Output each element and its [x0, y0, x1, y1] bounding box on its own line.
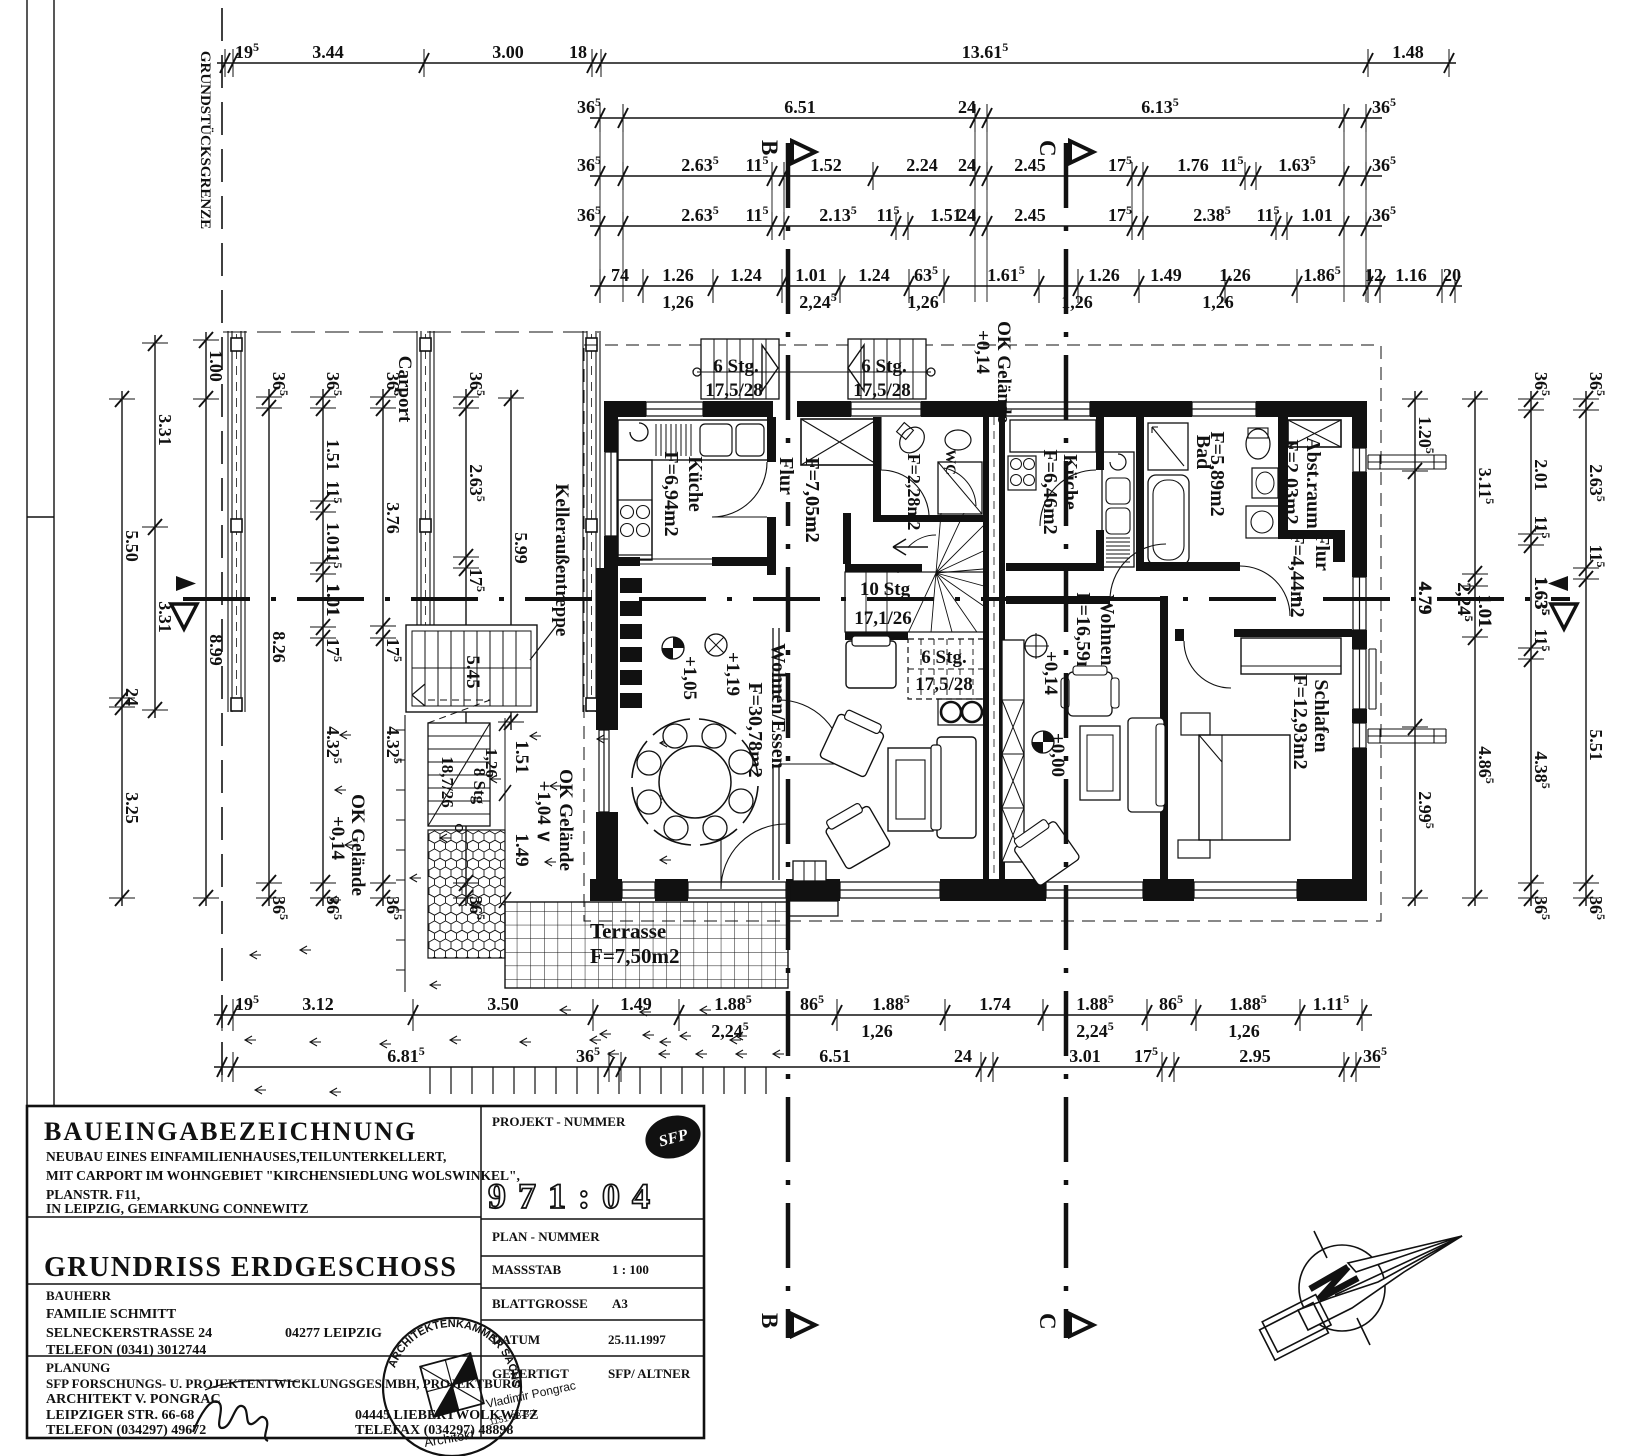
- signature: [193, 1401, 268, 1441]
- svg-text:GRUNDRISS ERDGESCHOSS: GRUNDRISS ERDGESCHOSS: [44, 1252, 458, 1283]
- svg-text:TELEFON (034297) 49672: TELEFON (034297) 49672: [46, 1423, 206, 1438]
- svg-text:Flur: Flur: [1311, 533, 1333, 571]
- entry stair 6 Stg: [701, 339, 779, 399]
- svg-text:+0,14: +0,14: [1040, 651, 1061, 696]
- title block frame: [27, 1106, 704, 1438]
- Wohnen/Schlafen wall: [1160, 596, 1168, 879]
- svg-text:PLANUNG: PLANUNG: [46, 1360, 110, 1375]
- window: [840, 882, 940, 898]
- svg-text:ARCHITEKT V. PONGRAC: ARCHITEKT V. PONGRAC: [46, 1392, 221, 1407]
- wall kitchen/hall left unit: [767, 417, 776, 462]
- door arc kitchen left: [712, 462, 767, 517]
- svg-text:+0,00: +0,00: [1047, 733, 1068, 777]
- window: [1353, 577, 1366, 630]
- window: [622, 882, 655, 898]
- right chain 2.63/5.51: [1585, 391, 1587, 906]
- needle lower body: [1298, 1236, 1462, 1330]
- Flur label left unit (over section B): [776, 452, 798, 502]
- svg-text:+0,14: +0,14: [327, 816, 348, 861]
- window: [1353, 723, 1366, 748]
- svg-text:24: 24: [958, 97, 976, 117]
- witness guide lines top block: [600, 104, 1366, 302]
- svg-text:1.48: 1.48: [1392, 42, 1424, 62]
- svg-text:NEUBAU EINES EINFAMILIENHAUSES: NEUBAU EINES EINFAMILIENHAUSES,TEILUNTER…: [46, 1149, 446, 1164]
- right unit kitchen wall: [1096, 417, 1104, 470]
- svg-text:MASSSTAB: MASSSTAB: [492, 1262, 561, 1277]
- carport wall: [417, 331, 434, 712]
- svg-text:+0,14: +0,14: [972, 330, 993, 375]
- top dimension row 1: [217, 62, 1456, 64]
- svg-text:13.615: 13.615: [962, 40, 1009, 62]
- svg-text:1.01: 1.01: [322, 583, 343, 616]
- window: [688, 882, 786, 898]
- wall below stair: [845, 632, 908, 640]
- level symbols living: [662, 637, 684, 659]
- svg-text:5.51: 5.51: [1586, 729, 1606, 761]
- svg-text:GRUNDSTÜCKSGRENZE: GRUNDSTÜCKSGRENZE: [197, 51, 214, 229]
- svg-text:6.51: 6.51: [819, 1046, 851, 1066]
- needle upper sliver: [1348, 1236, 1462, 1272]
- party wall: [983, 417, 989, 879]
- svg-text:5.50: 5.50: [122, 530, 142, 562]
- svg-text:6 Stg.: 6 Stg.: [921, 647, 966, 668]
- Abstellraum wall: [1278, 417, 1288, 539]
- svg-text:+1,05: +1,05: [679, 656, 700, 700]
- svg-text:2.45: 2.45: [1014, 205, 1046, 225]
- sitting group left unit: [846, 641, 896, 688]
- dining table round: [659, 746, 731, 818]
- svg-text:Kelleraußentreppe: Kelleraußentreppe: [551, 484, 572, 637]
- svg-text:3.25: 3.25: [122, 792, 142, 824]
- svg-text:1.01: 1.01: [1474, 594, 1495, 627]
- svg-text:24: 24: [122, 688, 142, 706]
- svg-text:Küche: Küche: [684, 456, 706, 512]
- svg-text:5.45: 5.45: [462, 655, 483, 688]
- svg-text:8.99: 8.99: [206, 634, 226, 666]
- section flag C top: [1070, 141, 1093, 163]
- svg-text:C: C: [1035, 140, 1060, 157]
- svg-text:PROJEKT - NUMMER: PROJEKT - NUMMER: [492, 1114, 626, 1129]
- svg-text:Flur: Flur: [775, 457, 797, 495]
- svg-text:1.76: 1.76: [1177, 155, 1209, 175]
- svg-text:F=7,50m2: F=7,50m2: [590, 944, 680, 968]
- kitchen counter top left unit: [618, 420, 768, 460]
- eaves dashed outline: [584, 345, 1381, 921]
- svg-text:2.45: 2.45: [1014, 155, 1046, 175]
- svg-text:3.01: 3.01: [1069, 1046, 1101, 1066]
- X box entry: [801, 419, 878, 465]
- top dimension row 2: [590, 117, 1382, 119]
- window: [599, 730, 609, 812]
- terrace grid hatch: [505, 902, 788, 988]
- svg-text:1,26: 1,26: [1228, 1021, 1260, 1041]
- left chain 5.99: [510, 390, 512, 730]
- left chain 3.31/3.31: [154, 335, 156, 718]
- svg-text:F=4,44m2: F=4,44m2: [1286, 532, 1308, 617]
- svg-text:GEFERTIGT: GEFERTIGT: [492, 1366, 569, 1381]
- kitchen counter left column: [618, 460, 652, 560]
- svg-text:Carport: Carport: [394, 356, 415, 423]
- retaining wall with ticks: [396, 715, 405, 992]
- svg-text:18,7/26: 18,7/26: [438, 756, 457, 807]
- svg-text:1.01: 1.01: [795, 265, 827, 285]
- door arc terrace: [721, 824, 786, 889]
- svg-text:Schlafen: Schlafen: [1310, 679, 1332, 752]
- sheet border lines left: [27, 0, 54, 1106]
- Abstellraum X box: [1288, 420, 1341, 447]
- svg-text:10 Stg: 10 Stg: [860, 579, 911, 600]
- svg-text:F=7,05m2: F=7,05m2: [801, 457, 823, 542]
- svg-text:6 Stg.: 6 Stg.: [713, 356, 758, 377]
- window: [1046, 882, 1143, 898]
- svg-text:3.00: 3.00: [492, 42, 524, 62]
- svg-text:1,26: 1,26: [482, 748, 501, 778]
- section marker A right: [1548, 576, 1568, 591]
- wall kitchen bottom right: [1006, 563, 1104, 571]
- exterior wall top: [604, 401, 646, 417]
- window: [1006, 402, 1090, 416]
- stove 4 burners: [618, 500, 652, 555]
- tail block: [1257, 1295, 1334, 1361]
- window: [851, 402, 921, 416]
- svg-text:12: 12: [1365, 265, 1383, 285]
- svg-text:24: 24: [958, 155, 976, 175]
- svg-text:17,5/28: 17,5/28: [853, 380, 911, 401]
- svg-text:1.52: 1.52: [810, 155, 842, 175]
- svg-text:24: 24: [954, 1046, 972, 1066]
- svg-text:B: B: [757, 140, 782, 155]
- carport wall: [583, 331, 600, 712]
- carport wall: [228, 331, 245, 712]
- svg-text:6.51: 6.51: [784, 97, 816, 117]
- svg-text:PLANSTR. F11,: PLANSTR. F11,: [46, 1187, 140, 1202]
- section line B vertical: [786, 143, 791, 1338]
- svg-text:2.24: 2.24: [906, 155, 938, 175]
- door arc hall->living: [779, 700, 843, 764]
- svg-text:Wohnen/Essen: Wohnen/Essen: [767, 643, 789, 769]
- svg-text:1.49: 1.49: [511, 833, 532, 866]
- svg-text:3.76: 3.76: [383, 502, 403, 534]
- svg-text:Terrasse: Terrasse: [590, 919, 666, 943]
- exterior wall right: [1352, 401, 1367, 448]
- small dim chain 1.51/1.49: [504, 718, 506, 905]
- svg-text:TELEFON (0341) 3012744: TELEFON (0341) 3012744: [46, 1343, 206, 1358]
- svg-text:BLATTGROSSE: BLATTGROSSE: [492, 1296, 588, 1311]
- svg-text:LEIPZIGER STR. 66-68: LEIPZIGER STR. 66-68: [46, 1408, 194, 1423]
- wall hall/living left unit: [773, 628, 779, 880]
- svg-text:B: B: [757, 1313, 782, 1328]
- svg-text:3.44: 3.44: [312, 42, 344, 62]
- svg-text:1.24: 1.24: [858, 265, 890, 285]
- svg-text:4.79: 4.79: [1414, 581, 1435, 614]
- svg-text:3.31: 3.31: [155, 414, 175, 446]
- stair direction arrow: [893, 539, 928, 555]
- svg-text:5.99: 5.99: [511, 532, 531, 564]
- bottom dimension row 1: [214, 1014, 1372, 1016]
- svg-text:Küche: Küche: [1059, 454, 1081, 510]
- entry stair 6 Stg: [848, 339, 926, 399]
- svg-text:2.95: 2.95: [1239, 1046, 1271, 1066]
- svg-text:F=2,03m2: F=2,03m2: [1280, 439, 1302, 524]
- bed: [1199, 735, 1290, 840]
- left chain with 1.51/1.01: [322, 389, 324, 906]
- window: [1353, 649, 1366, 709]
- window: [1353, 448, 1366, 472]
- left chain 5.50/24/3.25: [121, 391, 123, 906]
- bottom dimension row 2: [214, 1066, 1380, 1068]
- property boundary dashed line vertical (Grundstuecksgrenze): [221, 8, 223, 1088]
- svg-text:1.24: 1.24: [730, 265, 762, 285]
- right chain 2.01/1.63/4.38: [1530, 391, 1532, 906]
- left chain 36/8.26/36: [268, 389, 270, 906]
- svg-text:+1,04 ∨: +1,04 ∨: [533, 781, 554, 844]
- small table bottom: [793, 861, 826, 881]
- two burners near party wall: [938, 699, 984, 725]
- right unit level symbols: [1025, 635, 1047, 657]
- svg-text:1,26: 1,26: [662, 292, 694, 312]
- svg-text:SFP/ ALTNER: SFP/ ALTNER: [608, 1366, 691, 1381]
- window: [1192, 402, 1256, 416]
- exterior wall left: [604, 401, 618, 452]
- svg-text:1.51: 1.51: [323, 439, 343, 471]
- window: [605, 452, 617, 536]
- svg-text:971:04: 971:04: [488, 1176, 662, 1216]
- Bad walls: [1136, 417, 1144, 571]
- svg-text:20: 20: [1443, 265, 1461, 285]
- sitting group right unit: [1068, 672, 1112, 716]
- svg-text:1 : 100: 1 : 100: [612, 1262, 649, 1277]
- nightstands: [1181, 713, 1210, 735]
- arrow in stair: [412, 684, 425, 706]
- svg-text:1.51: 1.51: [511, 740, 532, 773]
- svg-text:IN LEIPZIG, GEMARKUNG CONNEWIT: IN LEIPZIG, GEMARKUNG CONNEWITZ: [46, 1201, 309, 1216]
- window: [646, 402, 703, 416]
- svg-text:A3: A3: [612, 1296, 628, 1311]
- wall kitchen bottom left unit: [604, 557, 640, 566]
- svg-text:+1,19: +1,19: [722, 652, 743, 696]
- right unit hall wall / Wohnen top: [1006, 596, 1110, 604]
- svg-text:SELNECKERSTRASSE 24: SELNECKERSTRASSE 24: [46, 1326, 212, 1341]
- svg-text:1.26: 1.26: [1219, 265, 1251, 285]
- section flag B bottom: [792, 1314, 815, 1336]
- svg-text:OK Gelände: OK Gelände: [555, 769, 576, 871]
- architect stamp: [383, 1318, 521, 1456]
- svg-text:1.00: 1.00: [206, 350, 226, 382]
- svg-text:24: 24: [958, 205, 976, 225]
- svg-text:F=2,28m2: F=2,28m2: [904, 454, 924, 531]
- top dimension row 4: [590, 225, 1382, 227]
- top dimension row 5: [590, 285, 1462, 287]
- WC walls: [873, 417, 881, 522]
- window sill symbols right: [1368, 455, 1446, 469]
- shelves black left living: [620, 578, 642, 593]
- svg-text:F=5,89m2: F=5,89m2: [1206, 431, 1228, 516]
- svg-text:F=6,46m2: F=6,46m2: [1039, 449, 1061, 534]
- fence tick marks below bottom line: [430, 1067, 766, 1094]
- svg-text:MIT CARPORT IM WOHNGEBIET "KIR: MIT CARPORT IM WOHNGEBIET "KIRCHENSIEDLU…: [46, 1168, 520, 1183]
- exterior wall bottom: [590, 879, 622, 901]
- svg-text:2.01: 2.01: [1531, 459, 1551, 491]
- svg-text:BAUHERR: BAUHERR: [46, 1288, 112, 1303]
- svg-text:04277 LEIPZIG: 04277 LEIPZIG: [285, 1326, 382, 1341]
- north arrow: [1257, 1231, 1462, 1360]
- left chain 3.76: [382, 389, 384, 906]
- svg-text:Wohnen: Wohnen: [1096, 594, 1118, 665]
- right chain 1.20/4.79/2.99: [1414, 391, 1416, 906]
- left chain 1.00/8.99: [205, 332, 207, 906]
- svg-text:C: C: [1035, 1313, 1060, 1330]
- svg-text:1.26: 1.26: [662, 265, 694, 285]
- top dimension row 3: [590, 175, 1382, 177]
- svg-text:18: 18: [569, 42, 587, 62]
- N letter (appears Z-like): [1310, 1267, 1358, 1299]
- svg-text:17,1/26: 17,1/26: [854, 608, 912, 629]
- section line C vertical: [1064, 143, 1069, 1338]
- svg-text:74: 74: [611, 265, 629, 285]
- section line A horizontal: [183, 597, 1570, 601]
- chevron marks: [245, 731, 784, 1096]
- right chain 3.11/1.01/4.86: [1474, 391, 1476, 906]
- door arc WC: [881, 417, 929, 515]
- svg-text:1,26: 1,26: [907, 292, 939, 312]
- svg-text:1.74: 1.74: [979, 994, 1011, 1014]
- SFP logo: [641, 1109, 706, 1164]
- svg-text:1.26: 1.26: [1088, 265, 1120, 285]
- svg-text:F=12,93m2: F=12,93m2: [1289, 674, 1311, 769]
- svg-text:17,5/28: 17,5/28: [705, 380, 763, 401]
- left chain 2.63: [465, 389, 467, 906]
- section flag B top: [792, 141, 815, 163]
- entry step below wall: [788, 901, 838, 916]
- hall/stair wall: [845, 564, 922, 572]
- hexagon paving area: [428, 830, 505, 958]
- svg-text:6 Stg.: 6 Stg.: [861, 356, 906, 377]
- svg-text:25.11.1997: 25.11.1997: [608, 1332, 666, 1347]
- svg-text:1,26: 1,26: [861, 1021, 893, 1041]
- svg-text:1,26: 1,26: [1202, 292, 1234, 312]
- svg-text:1.16: 1.16: [1395, 265, 1427, 285]
- svg-text:FAMILIE SCHMITT: FAMILIE SCHMITT: [46, 1307, 177, 1322]
- svg-text:8.26: 8.26: [269, 631, 289, 663]
- svg-text:1.01: 1.01: [1301, 205, 1333, 225]
- window: [1194, 882, 1297, 898]
- shelf in Schlafen: [1241, 638, 1341, 674]
- right kitchen fixtures: [1010, 420, 1096, 452]
- svg-text:3.50: 3.50: [487, 994, 519, 1014]
- svg-text:Abst.raum: Abst.raum: [1302, 437, 1324, 529]
- WC fixtures: [895, 422, 930, 458]
- Kellerausentreppe outer box: [406, 625, 537, 712]
- winder stair: [845, 572, 985, 632]
- carport roof dashed edge: [223, 331, 599, 333]
- svg-text:3.12: 3.12: [302, 994, 334, 1014]
- svg-text:1.49: 1.49: [620, 994, 652, 1014]
- section flag C bottom: [1070, 1314, 1093, 1336]
- door arc Bad: [1240, 566, 1290, 616]
- section marker A left: [176, 576, 196, 591]
- outdoor stair 8 Stg box: [428, 723, 490, 826]
- svg-text:17,5/28: 17,5/28: [915, 674, 973, 695]
- Schlafen top wall: [1175, 629, 1184, 641]
- svg-text:1.49: 1.49: [1150, 265, 1182, 285]
- wardrobe X along party wall: [1002, 640, 1024, 862]
- svg-text:WC: WC: [942, 449, 958, 475]
- svg-text:PLAN - NUMMER: PLAN - NUMMER: [492, 1229, 600, 1244]
- Bad fixtures: [1148, 423, 1188, 470]
- svg-text:F=6,94m2: F=6,94m2: [660, 451, 682, 536]
- stair 6 Stg dashed lower: [908, 639, 985, 699]
- svg-text:BAUEINGABEZEICHNUNG: BAUEINGABEZEICHNUNG: [44, 1117, 417, 1146]
